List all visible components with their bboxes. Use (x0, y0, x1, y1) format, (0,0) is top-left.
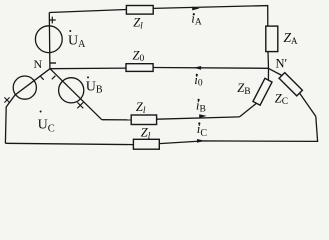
svg-text:Zl: Zl (136, 100, 146, 116)
wire: phase B right segment to ZB branch (157, 117, 240, 119)
svg-text:ZA: ZA (284, 30, 299, 46)
wire: vertical through source UA down to node N (48, 13, 51, 69)
wire: neutral left segment from N to Z0 (50, 67, 126, 70)
arrow IC current (197, 139, 205, 143)
svg-text:UC: UC (38, 117, 55, 134)
wire: diagonal from N through UC, down left edge to bottom line (5, 69, 50, 144)
wire: phase C left segment along bottom (5, 143, 133, 144)
svg-text:ZB: ZB (237, 81, 250, 97)
svg-text:Zl: Zl (133, 16, 143, 32)
svg-text:Zl: Zl (141, 125, 151, 141)
svg-text:i0: i0 (194, 72, 203, 89)
wire: phase B left segment (102, 119, 131, 121)
minus mark of UA near N (50, 62, 57, 64)
svg-text:iA: iA (191, 11, 202, 28)
wire: neutral right segment from Z0 to N' (153, 67, 268, 70)
resistor ZC (slanted) (279, 73, 302, 96)
wire: phase A top-right segment to corner and down to ZA (153, 6, 268, 27)
resistor Zl (phase C) (133, 139, 159, 149)
source UA circle (35, 26, 62, 53)
svg-text:UB: UB (86, 79, 103, 95)
wire: ZC branch lower lead down to bottom-right corner (300, 93, 316, 116)
plus (x) mark of UB (77, 102, 83, 108)
plus (x) mark of UC (4, 97, 9, 102)
resistor ZB (slanted) (253, 78, 272, 105)
wire: ZB branch lower lead (240, 103, 257, 117)
arrow I0 current (pointing left) (194, 66, 202, 70)
svg-text:N: N (34, 57, 43, 71)
arrow IA current (192, 7, 200, 11)
wire: phase C right segment to bottom-right corner and up (159, 116, 317, 143)
svg-text:UA: UA (68, 33, 86, 50)
arrow IB current (199, 114, 207, 118)
plus mark of UA (49, 17, 56, 24)
minus tick of UB near N (52, 76, 56, 80)
resistor Z0 (126, 64, 153, 72)
wire: phase A top-left segment from source corner to Zl (49, 10, 126, 13)
source UC circle (13, 76, 36, 99)
minus tick of UC near N (40, 76, 43, 80)
svg-text:iB: iB (196, 98, 206, 115)
source UB circle (59, 78, 84, 103)
wire: ZB branch upper lead to N' (267, 68, 269, 80)
resistor Zl (phase A) (126, 6, 153, 15)
resistor Zl (phase B) (131, 115, 156, 125)
wire: ZC branch upper lead from N' (269, 68, 283, 75)
wire: ZA bottom lead to node N' (267, 52, 270, 69)
wire: diagonal from N through UB to phase B line (50, 69, 102, 120)
resistor ZA (266, 26, 278, 51)
svg-text:ZC: ZC (275, 91, 288, 107)
svg-text:Z0: Z0 (133, 49, 145, 65)
svg-text:N′: N′ (276, 57, 288, 71)
